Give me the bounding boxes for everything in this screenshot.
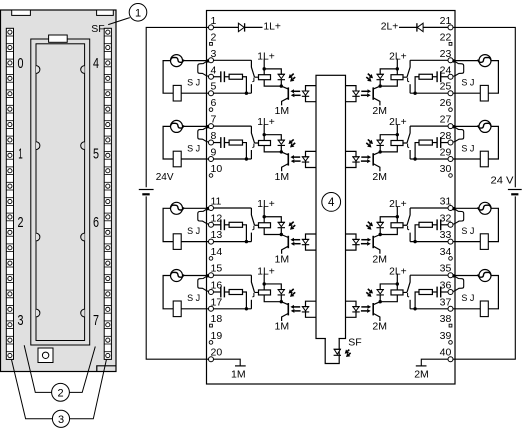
channel R4 coil wire to terminal bbox=[453, 308, 480, 310]
channel L4 opto LED loop bbox=[306, 301, 317, 317]
channel R1 transistor emitter bbox=[373, 98, 380, 106]
channel L4 opto arrow 1 bbox=[294, 306, 300, 308]
channel R3 transistor emitter bbox=[373, 246, 380, 254]
channel L4 contact post bbox=[250, 300, 252, 309]
svg-text:1M: 1M bbox=[275, 105, 290, 117]
svg-text:13: 13 bbox=[211, 229, 223, 241]
module label window bbox=[49, 35, 68, 42]
module left terminal strip bbox=[6, 28, 13, 359]
channel R3 contact tail bbox=[408, 226, 410, 230]
channel L3 contact blade bbox=[251, 208, 258, 225]
terminal 21 screw bbox=[448, 25, 453, 30]
callout circle 1 bbox=[129, 4, 147, 22]
channel R2 snubber capacitor bbox=[440, 137, 442, 148]
channel R2 feed junction bbox=[396, 133, 399, 136]
channel L1 transistor collector bbox=[281, 86, 288, 89]
channel L1 snubber junction bbox=[245, 92, 248, 95]
channel R1 feed junction bbox=[396, 67, 399, 70]
channel R3 load loop wire bbox=[488, 208, 498, 241]
channel L3 status LED lower wire bbox=[280, 228, 282, 234]
channel R2 status LED bbox=[377, 140, 383, 144]
channel L4 status LED arrow 1 bbox=[291, 289, 293, 291]
module top-right notch bbox=[97, 10, 114, 15]
channel R3 status LED arrow 2 bbox=[366, 225, 368, 227]
channel L1 coil wire to terminal bbox=[181, 92, 208, 94]
channel L4 transistor base bar bbox=[287, 303, 289, 315]
channel L2 coil resistor lower wire bbox=[264, 146, 281, 152]
svg-text:29: 29 bbox=[440, 147, 452, 159]
terminal 3 screw bbox=[209, 58, 214, 63]
channel R2 2L+ feed wire bbox=[396, 125, 398, 141]
svg-text:15: 15 bbox=[211, 263, 223, 275]
svg-text:31: 31 bbox=[440, 196, 452, 208]
channel L2 status LED arrow 1 bbox=[291, 139, 293, 141]
channel L3 status LED bbox=[278, 222, 284, 226]
channel R4 opto arrow 1 bbox=[361, 306, 367, 308]
channel R2 lamp wire to terminal bbox=[453, 125, 479, 127]
svg-text:2M: 2M bbox=[414, 369, 429, 381]
svg-text:1L+: 1L+ bbox=[257, 199, 275, 210]
channel L4 load branch hook bbox=[198, 276, 209, 292]
svg-text:21: 21 bbox=[440, 15, 452, 27]
channel L3 snubber wire b bbox=[224, 224, 229, 226]
channel L3 snubber junction bbox=[245, 240, 248, 243]
channel L2 lamp load bbox=[171, 120, 183, 132]
channel L2 status LED lower wire bbox=[280, 146, 282, 152]
channel L4 driver junction bbox=[280, 300, 283, 303]
channel L3 coil resistor lower wire bbox=[264, 228, 281, 235]
channel R3 coil resistor bbox=[391, 223, 403, 228]
channel L1 load loop wire bbox=[163, 61, 173, 94]
channel R3 coil resistor lower wire bbox=[380, 228, 397, 235]
SF LED arrow 2 bbox=[349, 353, 351, 355]
svg-text:SF: SF bbox=[348, 337, 361, 349]
channel L2 output wire bbox=[213, 125, 251, 127]
svg-text:33: 33 bbox=[440, 229, 452, 241]
svg-text:2: 2 bbox=[211, 31, 217, 43]
channel R2 opto arrow 2 bbox=[361, 160, 367, 162]
terminal 37 screw bbox=[448, 306, 453, 311]
callout 2 line left bbox=[24, 345, 51, 392]
terminal 13 screw bbox=[209, 239, 214, 244]
channel L2 hook junction bbox=[206, 125, 209, 128]
channel R2 snubber resistor bbox=[419, 140, 432, 145]
channel L1 contact post bbox=[250, 84, 252, 93]
channel L2 feed junction bbox=[263, 133, 266, 136]
channel R2 status LED arrow 2 bbox=[366, 143, 368, 145]
channel R3 status LED bbox=[377, 222, 383, 226]
module bottom screw bbox=[42, 352, 48, 358]
channel R1 status LED lower wire bbox=[379, 80, 381, 86]
channel L2 solenoid coil SJ bbox=[173, 151, 181, 167]
channel R1 solenoid coil SJ bbox=[480, 85, 488, 101]
terminal 8 screw bbox=[209, 140, 214, 145]
channel R3 solenoid coil SJ bbox=[480, 234, 488, 250]
channel L2 load loop wire bbox=[163, 126, 173, 159]
channel R4 return wire bbox=[410, 308, 448, 310]
channel R1 load loop wire bbox=[488, 61, 498, 94]
channel R2 lamp load bbox=[479, 120, 491, 132]
channel L3 opto LED bbox=[302, 239, 308, 243]
channel R4 snubber wire c bbox=[415, 292, 419, 309]
channel R1 snubber resistor bbox=[419, 74, 432, 79]
interface block bbox=[316, 75, 346, 338]
channel L2 1L+ feed wire bbox=[263, 125, 265, 141]
channel L1 driver branch wire bbox=[264, 69, 281, 74]
channel L3 transistor emitter bbox=[282, 246, 289, 254]
channel L4 opto arrow 2 bbox=[294, 310, 300, 312]
channel L3 status LED arrow 1 bbox=[291, 222, 293, 224]
svg-text:11: 11 bbox=[211, 196, 222, 208]
channel L4 opto LED bbox=[302, 307, 308, 311]
channel R3 output wire bbox=[410, 207, 448, 209]
callout 3 line right bbox=[70, 360, 107, 419]
channel R3 snubber wire c bbox=[415, 225, 419, 242]
svg-text:16: 16 bbox=[211, 280, 223, 292]
svg-text:1: 1 bbox=[18, 145, 23, 162]
channel L2 contact post bbox=[250, 150, 252, 159]
terminal 40 screw bbox=[448, 357, 453, 362]
channel L3 coil wire to terminal bbox=[181, 241, 208, 243]
battery 24V right short plate bbox=[511, 193, 518, 195]
channel L4 hook junction bbox=[206, 274, 209, 277]
channel R3 opto LED bbox=[353, 239, 359, 243]
svg-text:2L+: 2L+ bbox=[389, 266, 407, 277]
terminal 12 screw bbox=[209, 222, 214, 227]
channel R2 opto LED bbox=[353, 157, 359, 161]
channel R3 snubber capacitor bbox=[440, 219, 442, 230]
channel R1 opto LED bbox=[353, 91, 359, 95]
channel L1 solenoid coil SJ bbox=[173, 85, 181, 101]
channel R3 status LED lower wire bbox=[379, 228, 381, 234]
svg-text:SF: SF bbox=[91, 23, 104, 35]
channel L3 contact tail bbox=[252, 226, 254, 230]
channel L3 transistor collector bbox=[281, 235, 288, 238]
channel R4 status LED arrow 1 bbox=[368, 289, 370, 291]
terminal 19 screw bbox=[209, 341, 213, 345]
module bottom screw square bbox=[38, 348, 53, 363]
terminal 22 screw bbox=[449, 42, 452, 45]
channel L3 opto arrow 2 bbox=[294, 243, 300, 245]
channel R1 snubber capacitor bbox=[440, 71, 442, 82]
svg-text:3: 3 bbox=[58, 414, 64, 426]
channel R1 lamp wire to terminal bbox=[453, 60, 479, 62]
channel L4 lamp wire to terminal bbox=[182, 275, 208, 277]
channel R2 load loop wire bbox=[488, 126, 498, 159]
channel R4 solenoid coil SJ bbox=[480, 301, 488, 317]
channel R4 lamp load bbox=[479, 270, 491, 282]
terminal 38 screw bbox=[449, 324, 452, 327]
terminal 4 screw bbox=[209, 74, 214, 79]
channel R2 contact post bbox=[409, 150, 411, 159]
channel L4 snubber resistor bbox=[229, 290, 242, 295]
channel L4 driver branch wire bbox=[264, 284, 281, 290]
channel L3 snubber resistor bbox=[229, 222, 242, 227]
channel R4 contact post bbox=[409, 300, 411, 309]
svg-text:1L+: 1L+ bbox=[257, 117, 275, 128]
channel R1 return wire bbox=[410, 92, 448, 94]
channel L1 coil resistor bbox=[259, 75, 271, 80]
channel R1 hook junction bbox=[452, 59, 455, 62]
channel L2 snubber wire c bbox=[243, 143, 247, 159]
channel L4 feed junction bbox=[263, 282, 266, 285]
svg-text:40: 40 bbox=[440, 347, 452, 359]
channel R4 load branch hook bbox=[453, 276, 464, 292]
terminal 26 screw bbox=[449, 108, 453, 112]
channel R4 load loop wire bbox=[488, 276, 498, 309]
cover latch notch left 2 bbox=[36, 142, 40, 150]
terminal 36 screw bbox=[448, 290, 453, 295]
channel R3 snubber wire a bbox=[441, 224, 448, 226]
SF LED bbox=[334, 349, 340, 354]
channel R4 transistor emitter bbox=[373, 313, 380, 321]
svg-text:S J: S J bbox=[461, 293, 474, 303]
channel L1 status LED lower wire bbox=[280, 80, 282, 86]
channel R2 transistor base bar bbox=[372, 153, 374, 165]
svg-text:1M: 1M bbox=[275, 253, 290, 265]
channel L2 driver branch wire bbox=[264, 135, 281, 140]
channel R4 coil resistor lower wire bbox=[380, 295, 397, 302]
svg-text:3: 3 bbox=[18, 312, 24, 329]
channel R2 hook junction bbox=[452, 125, 455, 128]
svg-text:2: 2 bbox=[18, 214, 24, 231]
terminal 39 screw bbox=[449, 341, 453, 345]
channel R2 transistor collector bbox=[373, 152, 380, 155]
channel R3 opto arrow 2 bbox=[361, 243, 367, 245]
channel L1 hook junction bbox=[206, 59, 209, 62]
svg-text:2L+: 2L+ bbox=[389, 199, 407, 210]
channel R1 snubber junction bbox=[413, 92, 416, 95]
channel L1 transistor base bar bbox=[287, 87, 289, 99]
terminal 24 screw bbox=[448, 74, 453, 79]
cover latch notch right 2 bbox=[81, 142, 85, 150]
terminal 7 screw bbox=[209, 124, 214, 129]
channel R2 snubber wire b bbox=[432, 142, 437, 144]
svg-text:38: 38 bbox=[440, 313, 452, 325]
svg-text:35: 35 bbox=[440, 263, 452, 275]
svg-text:28: 28 bbox=[440, 130, 452, 142]
svg-text:2M: 2M bbox=[372, 105, 387, 117]
diode 1L+ bbox=[238, 23, 244, 31]
channel R2 coil resistor bbox=[391, 141, 403, 146]
channel R3 hook junction bbox=[452, 207, 455, 210]
channel L4 snubber wire a bbox=[213, 291, 220, 293]
channel L1 opto arrow 2 bbox=[294, 94, 300, 96]
channel L2 contact tail bbox=[252, 143, 254, 147]
channel L1 driver junction bbox=[280, 84, 283, 87]
svg-text:24V: 24V bbox=[156, 172, 174, 183]
channel L4 contact tail bbox=[252, 293, 254, 297]
channel L4 status LED arrow 2 bbox=[293, 292, 295, 294]
svg-text:1: 1 bbox=[135, 7, 141, 19]
channel R2 driver branch wire bbox=[380, 135, 397, 140]
svg-text:23: 23 bbox=[440, 48, 452, 60]
svg-text:0: 0 bbox=[18, 55, 24, 72]
channel L4 coil resistor lower wire bbox=[264, 295, 281, 302]
terminal 14 screw bbox=[209, 257, 213, 261]
channel L3 hook junction bbox=[206, 207, 209, 210]
channel R1 status LED bbox=[377, 74, 383, 78]
channel L1 lamp wire to terminal bbox=[182, 60, 208, 62]
channel L3 1L+ feed wire bbox=[263, 206, 265, 222]
channel R3 lamp wire to terminal bbox=[453, 207, 479, 209]
channel R1 coil wire to terminal bbox=[453, 92, 480, 94]
channel L1 transistor emitter bbox=[282, 98, 289, 106]
callout 2 line right bbox=[69, 347, 95, 393]
svg-text:1: 1 bbox=[211, 15, 217, 27]
channel L3 solenoid coil SJ bbox=[173, 234, 181, 250]
channel L2 transistor emitter bbox=[282, 164, 289, 172]
channel R1 contact tail bbox=[408, 78, 410, 82]
1L+ supply rail left bbox=[146, 27, 208, 359]
channel L4 transistor collector bbox=[281, 302, 288, 305]
battery 24V left long plate bbox=[139, 189, 154, 191]
channel R2 solenoid coil SJ bbox=[480, 151, 488, 167]
channel R1 opto LED loop bbox=[346, 86, 357, 102]
svg-text:1L+: 1L+ bbox=[257, 51, 275, 62]
svg-text:20: 20 bbox=[211, 347, 223, 359]
svg-text:S J: S J bbox=[187, 293, 200, 303]
channel L2 snubber capacitor bbox=[220, 137, 222, 148]
svg-text:5: 5 bbox=[211, 81, 217, 93]
cover latch notch left 3 bbox=[36, 233, 40, 241]
channel L1 1L+ feed wire bbox=[263, 59, 265, 75]
terminal 33 screw bbox=[448, 239, 453, 244]
channel R3 transistor collector bbox=[373, 235, 380, 238]
channel L1 status LED arrow 1 bbox=[291, 74, 293, 76]
channel R2 snubber wire a bbox=[441, 142, 448, 144]
channel L3 opto LED loop bbox=[306, 234, 317, 250]
channel L2 contact blade bbox=[251, 126, 258, 143]
channel R2 opto LED loop bbox=[346, 151, 357, 167]
terminal 1 feed wire bbox=[213, 26, 238, 28]
channel R3 contact blade bbox=[403, 208, 410, 225]
channel L1 status LED bbox=[278, 74, 284, 78]
channel L4 solenoid coil SJ bbox=[173, 301, 181, 317]
channel L4 coil wire to terminal bbox=[181, 308, 208, 310]
channel L3 load loop wire bbox=[163, 208, 173, 241]
svg-text:4: 4 bbox=[93, 55, 99, 72]
channel L3 contact post bbox=[250, 233, 252, 242]
channel L2 snubber resistor bbox=[229, 140, 242, 145]
channel R2 snubber wire c bbox=[415, 143, 419, 159]
svg-text:32: 32 bbox=[440, 212, 452, 224]
channel R4 feed junction bbox=[396, 282, 399, 285]
callout line 1 bbox=[108, 18, 130, 25]
channel L4 coil resistor bbox=[259, 290, 271, 295]
svg-text:2L+: 2L+ bbox=[389, 51, 407, 62]
channel L2 status LED bbox=[278, 140, 284, 144]
channel L2 transistor base bar bbox=[287, 153, 289, 165]
channel R1 lamp load bbox=[479, 55, 491, 67]
channel L2 return wire bbox=[213, 158, 251, 160]
svg-text:4: 4 bbox=[211, 64, 217, 76]
channel R4 opto LED loop bbox=[346, 301, 357, 317]
channel L4 snubber capacitor bbox=[220, 287, 222, 298]
channel R3 snubber resistor bbox=[419, 222, 432, 227]
svg-text:25: 25 bbox=[440, 81, 452, 93]
terminal 6 screw bbox=[209, 108, 213, 112]
channel L1 snubber capacitor bbox=[220, 71, 222, 82]
svg-text:5: 5 bbox=[93, 145, 99, 162]
terminal 18 screw bbox=[210, 324, 213, 327]
terminal 20 screw bbox=[209, 357, 214, 362]
channel R3 coil wire to terminal bbox=[453, 241, 480, 243]
channel R3 2L+ feed wire bbox=[396, 206, 398, 222]
1M chassis bar bbox=[235, 365, 246, 367]
terminal 9 screw bbox=[209, 157, 214, 162]
svg-text:18: 18 bbox=[211, 313, 223, 325]
channel R1 coil resistor lower wire bbox=[380, 80, 397, 86]
channel L1 lamp load bbox=[171, 55, 183, 67]
channel R4 contact blade bbox=[403, 275, 410, 292]
channel L1 load branch hook bbox=[198, 61, 209, 77]
svg-text:24: 24 bbox=[440, 64, 452, 76]
terminal 5 screw bbox=[209, 91, 214, 96]
channel R4 snubber capacitor bbox=[440, 287, 442, 298]
channel R3 driver junction bbox=[379, 233, 382, 236]
channel R2 contact tail bbox=[408, 143, 410, 147]
svg-text:2L+: 2L+ bbox=[381, 22, 399, 33]
terminal 34 screw bbox=[449, 257, 453, 261]
channel L2 transistor collector bbox=[281, 152, 288, 155]
channel R1 driver junction bbox=[379, 84, 382, 87]
channel R4 output wire bbox=[410, 274, 448, 276]
module front view body bbox=[1, 10, 117, 372]
channel L4 snubber wire c bbox=[243, 292, 247, 309]
channel L4 status LED lower wire bbox=[280, 295, 282, 301]
terminal 10 screw bbox=[209, 174, 213, 178]
channel L3 status LED arrow 2 bbox=[293, 225, 295, 227]
terminal 17 screw bbox=[209, 306, 214, 311]
cover latch notch left 4 bbox=[36, 309, 40, 317]
channel L3 load branch hook bbox=[198, 209, 209, 225]
svg-text:19: 19 bbox=[211, 330, 223, 342]
terminal 1 screw bbox=[209, 25, 214, 30]
svg-text:S J: S J bbox=[461, 143, 474, 153]
channel L1 opto arrow 1 bbox=[294, 90, 300, 92]
channel R4 contact tail bbox=[408, 293, 410, 297]
terminal 25 screw bbox=[448, 91, 453, 96]
module cover outer bbox=[31, 39, 90, 345]
channel R1 coil resistor bbox=[391, 75, 403, 80]
channel R1 load branch hook bbox=[453, 61, 464, 77]
module right terminal strip bbox=[104, 28, 111, 359]
channel L1 snubber wire c bbox=[243, 77, 247, 93]
diode 2L+ bbox=[417, 23, 423, 31]
channel R1 transistor collector bbox=[373, 86, 380, 89]
channel R3 status LED arrow 1 bbox=[368, 222, 370, 224]
svg-text:2L+: 2L+ bbox=[389, 117, 407, 128]
channel L1 snubber resistor bbox=[229, 74, 242, 79]
2L+ supply rail right bbox=[453, 27, 515, 359]
svg-text:1M: 1M bbox=[275, 171, 290, 183]
svg-text:7: 7 bbox=[93, 312, 99, 329]
channel R3 return wire bbox=[410, 241, 448, 243]
channel L4 output wire bbox=[213, 274, 251, 276]
svg-text:S J: S J bbox=[461, 78, 474, 88]
svg-text:1M: 1M bbox=[275, 321, 290, 333]
schematic enclosure box bbox=[207, 11, 456, 385]
channel R3 opto LED loop bbox=[346, 234, 357, 250]
channel R1 contact blade bbox=[403, 60, 410, 77]
cover latch notch right 3 bbox=[81, 233, 85, 241]
channel R4 snubber wire b bbox=[432, 291, 437, 293]
channel L4 lamp load bbox=[171, 270, 183, 282]
channel R1 status LED arrow 1 bbox=[368, 74, 370, 76]
channel L1 status LED arrow 2 bbox=[293, 77, 295, 79]
terminal 27 screw bbox=[448, 124, 453, 129]
